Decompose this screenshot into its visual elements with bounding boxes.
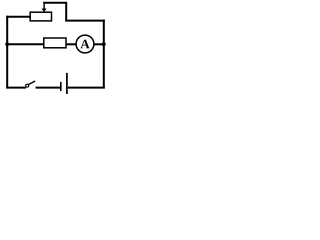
wire step horizontal: [65, 20, 105, 22]
node junction right: [102, 42, 106, 46]
wire switch to battery: [36, 87, 60, 89]
battery B1 long plate: [66, 73, 68, 94]
ammeter A1 circle: [76, 35, 94, 53]
node junction left: [5, 42, 9, 46]
wire bottom left: [6, 87, 26, 89]
wire resistor to ammeter: [66, 43, 77, 45]
wire left vertical: [6, 16, 8, 89]
switch S1 contact circle: [26, 84, 29, 87]
rheostat wiper arrow shaft: [43, 3, 45, 9]
wire top-left horizontal: [6, 16, 30, 18]
resistor R2 body: [44, 38, 66, 48]
wire step vertical: [65, 2, 67, 21]
switch S1 lever: [29, 81, 36, 85]
rheostat R1 body: [30, 12, 51, 21]
wire top horizontal: [43, 2, 66, 4]
wire battery to right: [68, 87, 105, 89]
battery B1 short plate: [60, 82, 62, 91]
ammeter A1 label: [80, 40, 89, 49]
wire ammeter to right: [94, 43, 105, 45]
rheostat wiper arrowhead: [42, 9, 47, 13]
wire right vertical: [103, 20, 105, 89]
wire middle left: [6, 43, 44, 45]
